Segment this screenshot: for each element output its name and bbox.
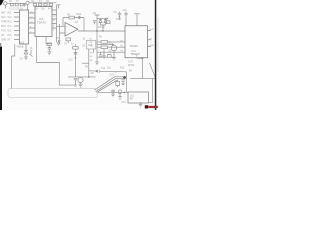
value labels top row bbox=[9, 1, 53, 10]
pin numbers U1/U2 gap bbox=[30, 11, 33, 33]
resistor R8 bbox=[116, 81, 120, 85]
capacitor C15 bbox=[74, 78, 77, 85]
wire bbox=[97, 80, 118, 93]
svg-text:100n: 100n bbox=[116, 19, 122, 21]
resistor R4 bbox=[106, 21, 110, 24]
speaker LS1 bbox=[128, 92, 149, 103]
svg-text:IN 4: IN 4 bbox=[7, 26, 12, 28]
resistor R3 bbox=[66, 38, 71, 41]
wire bbox=[78, 30, 125, 32]
wire bbox=[88, 49, 90, 77]
wire bbox=[97, 18, 108, 20]
wire bbox=[94, 77, 114, 90]
svg-text:D1 D2: D1 D2 bbox=[98, 27, 105, 29]
ground GND1 bbox=[48, 49, 52, 55]
wire bbox=[83, 18, 85, 32]
wire bbox=[93, 49, 95, 53]
frame box bottom bbox=[8, 89, 98, 98]
wire bbox=[97, 91, 129, 93]
svg-text:SD: SD bbox=[90, 60, 93, 62]
wire bbox=[35, 3, 51, 7]
connector J1 bbox=[4, 2, 7, 5]
IC U5 bbox=[125, 26, 148, 58]
supply VCC2 bbox=[95, 15, 100, 36]
svg-text:C14: C14 bbox=[101, 68, 106, 70]
wire bbox=[7, 2, 26, 4]
transistor Q2 bbox=[78, 77, 83, 82]
node N4 bbox=[102, 30, 103, 31]
svg-text:100k: 100k bbox=[76, 14, 82, 16]
wire bbox=[60, 18, 64, 45]
page edge line right bbox=[155, 0, 157, 110]
svg-text:4066B: 4066B bbox=[17, 45, 24, 48]
pin labels bus column bbox=[90, 38, 94, 62]
svg-text:GND: GND bbox=[149, 45, 154, 47]
node N6 bbox=[75, 57, 76, 58]
capacitor C12 bbox=[118, 12, 121, 20]
pin stubs U5 right bbox=[148, 31, 152, 47]
node bus B1 bbox=[56, 5, 58, 42]
capacitor C16 bbox=[97, 70, 99, 73]
capacitor C14 bbox=[74, 53, 78, 55]
ground GND3 bbox=[102, 49, 106, 59]
svg-text:C15: C15 bbox=[122, 102, 127, 104]
label U5 bbox=[130, 44, 141, 56]
capacitor C22 bbox=[49, 3, 52, 6]
node bus B2 bbox=[96, 36, 98, 62]
resistor R2 bbox=[63, 17, 84, 19]
svg-text:C10: C10 bbox=[123, 10, 128, 12]
capacitor C21 bbox=[111, 43, 114, 46]
connector J2 bbox=[26, 1, 29, 4]
wire bbox=[115, 77, 125, 79]
svg-text:IN 1: IN 1 bbox=[7, 12, 12, 14]
svg-text:TBA820: TBA820 bbox=[131, 52, 141, 56]
wire bbox=[67, 41, 69, 44]
ground GND6 bbox=[121, 83, 125, 86]
pin stubs U1 left bbox=[14, 13, 20, 40]
transistor Q3 bbox=[118, 90, 122, 94]
capacitor C11 bbox=[93, 21, 97, 25]
wire bbox=[96, 78, 116, 91]
svg-text:8R: 8R bbox=[130, 99, 133, 101]
supply VCC3 bbox=[134, 14, 140, 26]
wire bbox=[130, 78, 155, 80]
wire bbox=[75, 44, 77, 77]
wire bbox=[101, 25, 106, 31]
capacitor C17 bbox=[121, 80, 124, 83]
svg-text:R10: R10 bbox=[120, 67, 125, 69]
wire bbox=[137, 57, 142, 59]
svg-text:SPKR: SPKR bbox=[128, 65, 135, 67]
svg-text:TDA20: TDA20 bbox=[130, 44, 139, 48]
svg-text:0V: 0V bbox=[7, 39, 10, 41]
label U3 bbox=[64, 14, 82, 45]
resistor R13 bbox=[15, 3, 18, 5]
capacitor C20 bbox=[99, 52, 102, 56]
ground GND9 bbox=[118, 94, 122, 100]
op-amp U3 bbox=[65, 23, 78, 37]
svg-text:CD: CD bbox=[1, 35, 5, 37]
ground GND8 bbox=[139, 103, 143, 107]
diode D4 bbox=[104, 19, 107, 26]
svg-text:LS1: LS1 bbox=[130, 95, 135, 97]
svg-text:0V: 0V bbox=[140, 103, 143, 105]
ground GND10 bbox=[95, 62, 99, 65]
diode D2 bbox=[30, 50, 33, 57]
capacitor C1 bbox=[20, 3, 23, 5]
diode D1 bbox=[24, 44, 28, 54]
svg-text:TDA70: TDA70 bbox=[37, 21, 46, 25]
resistor R6 bbox=[101, 46, 108, 49]
wire bbox=[97, 51, 125, 53]
diode D3 bbox=[99, 19, 102, 26]
svg-text:GN: GN bbox=[90, 53, 94, 55]
wire bbox=[149, 79, 153, 103]
svg-text:IC1: IC1 bbox=[20, 40, 25, 44]
capacitor C8 bbox=[44, 3, 47, 6]
node N3 bbox=[96, 30, 97, 31]
wire bbox=[29, 2, 56, 4]
resistor R11 bbox=[108, 55, 112, 58]
svg-text:0V: 0V bbox=[20, 59, 23, 61]
wire bbox=[100, 70, 126, 73]
svg-text:+9V: +9V bbox=[92, 13, 97, 15]
svg-text:IN 2: IN 2 bbox=[7, 17, 12, 19]
IC U4 bbox=[87, 40, 96, 49]
page gutter shadow left bbox=[0, 47, 2, 111]
wire bbox=[82, 62, 89, 64]
ground GND7 bbox=[111, 92, 115, 97]
svg-text:C1 C2 C3 C4: C1 C2 C3 C4 bbox=[9, 8, 23, 10]
svg-text:IN 3: IN 3 bbox=[7, 21, 12, 23]
value labels mid bbox=[20, 10, 143, 105]
pin labels U5 left bbox=[120, 40, 124, 52]
resistor R12 bbox=[10, 3, 13, 5]
wire bbox=[89, 70, 96, 72]
IC U1 bbox=[20, 10, 29, 44]
svg-text:ANT: ANT bbox=[1, 11, 6, 14]
supply VCC1 bbox=[57, 5, 61, 9]
wire bbox=[57, 26, 66, 33]
wire bbox=[125, 72, 127, 93]
resistor R7 bbox=[73, 47, 79, 50]
svg-text:IN 5: IN 5 bbox=[7, 30, 12, 32]
pin stubs U1 right bbox=[29, 13, 36, 33]
node N7 bbox=[123, 92, 125, 94]
capacitor C9 bbox=[57, 40, 60, 46]
watermark logo bbox=[145, 105, 158, 108]
node N8 bbox=[96, 70, 98, 72]
wire bbox=[150, 63, 156, 78]
ground GND5 bbox=[78, 83, 82, 87]
label U2 bbox=[37, 17, 46, 25]
resistor R5 bbox=[101, 41, 108, 44]
capacitor C5 bbox=[24, 3, 27, 6]
node N1 bbox=[142, 57, 144, 59]
wire bbox=[27, 5, 29, 10]
pin labels left column bbox=[1, 11, 12, 41]
capacitor C7 bbox=[39, 3, 42, 6]
svg-text:IN 6: IN 6 bbox=[7, 35, 12, 37]
ground GND2 bbox=[24, 54, 28, 59]
svg-text:AUX: AUX bbox=[1, 16, 6, 19]
capacitor C6 bbox=[33, 3, 36, 6]
capacitor C10 bbox=[48, 46, 51, 50]
pin labels U5 right bbox=[149, 29, 154, 47]
svg-text:C12: C12 bbox=[69, 60, 74, 62]
wire bbox=[68, 76, 96, 78]
svg-text:C16: C16 bbox=[110, 74, 115, 76]
svg-text:OUT: OUT bbox=[128, 62, 133, 64]
node N5 bbox=[88, 76, 90, 78]
svg-text:OUT: OUT bbox=[149, 29, 154, 31]
capacitor C18 bbox=[111, 89, 115, 92]
capacitor C13 bbox=[124, 12, 127, 26]
ground GND4 bbox=[112, 53, 116, 60]
wire bbox=[141, 58, 143, 79]
wire bbox=[37, 37, 76, 86]
svg-text:PHO: PHO bbox=[1, 26, 6, 28]
svg-text:GND: GND bbox=[1, 39, 6, 41]
wire bbox=[97, 45, 114, 58]
pin stubs U2 right bbox=[52, 10, 57, 28]
transistor Q1 bbox=[111, 45, 117, 51]
IC U2 bbox=[35, 7, 52, 37]
resistor R1 bbox=[47, 43, 52, 46]
svg-text:TUN: TUN bbox=[1, 30, 6, 32]
wire bbox=[12, 44, 15, 89]
svg-text:8R: 8R bbox=[129, 71, 132, 73]
node N2 bbox=[123, 76, 126, 79]
